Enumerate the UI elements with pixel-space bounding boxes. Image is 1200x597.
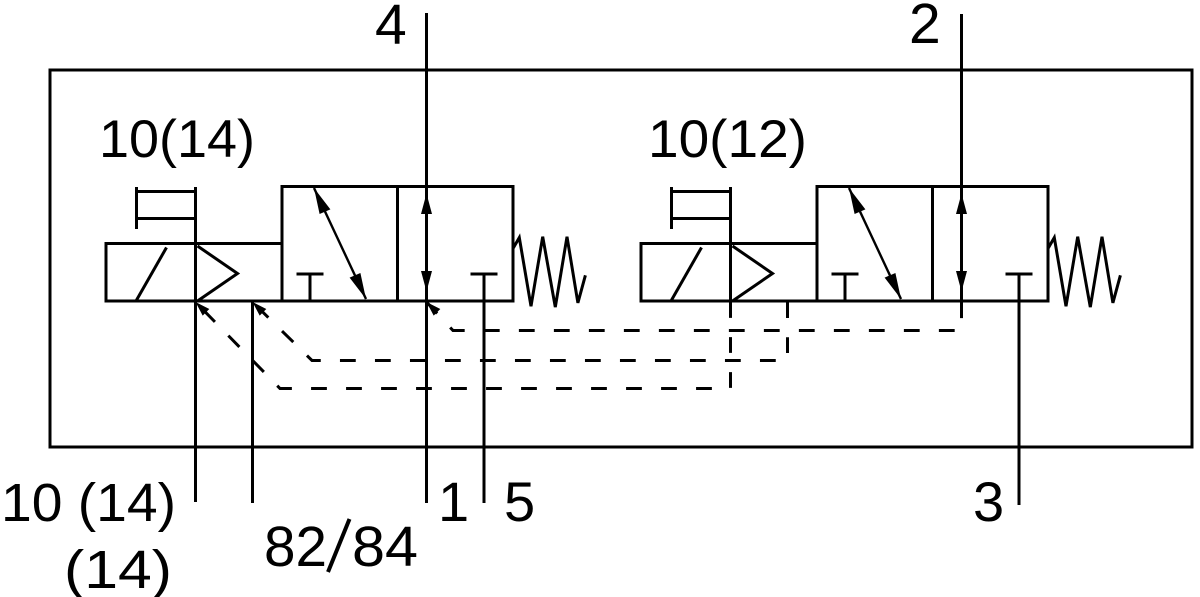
valve V2 body position b (933, 187, 1049, 302)
valve V2 body position a (817, 187, 933, 302)
valve V1 flow path arrow position a (314, 188, 366, 299)
valve V1 blocked port position a (297, 274, 324, 301)
valve V1 return spring (513, 237, 585, 307)
valve V1 body position b (398, 187, 514, 302)
valve V1 solenoid coil diagonal (136, 248, 167, 302)
dashed pilot line 14 (V1 pilot to V2) (196, 302, 731, 389)
port 5 line (483, 274, 486, 503)
valve V2 blocked port position b (port 3 tee) (1006, 273, 1033, 276)
valve V1 blocked port position b (port 5 tee) (471, 273, 498, 276)
valve V1 flow arrows position b (421, 194, 432, 292)
manifold outline (50, 70, 1192, 447)
valve V2 pilot line 10(12) (729, 187, 732, 301)
dashed pilot supply line (port 1 to V2 port 2) (427, 302, 962, 331)
svg-text:84: 84 (352, 515, 418, 579)
valve V1 pilot line 10(14) (194, 187, 197, 502)
port 4 line (425, 13, 428, 503)
svg-text:82: 82 (264, 515, 327, 579)
svg-text:1: 1 (438, 470, 469, 533)
svg-text:2: 2 (909, 0, 941, 56)
svg-text:10 (14): 10 (14) (1, 473, 176, 533)
valve V1 port 82/84 line (251, 301, 254, 503)
valve V2 manual override (672, 187, 731, 229)
valve V1 manual override (137, 187, 196, 229)
valve V1 solenoid box (106, 244, 282, 302)
valve V2 return spring (1048, 237, 1120, 307)
valve V2 flow path arrow position a (849, 188, 901, 299)
valve V1 body position a (282, 187, 398, 302)
dashed pilot line 82/84 (V1 to V2) (253, 302, 788, 361)
svg-text:10(12): 10(12) (648, 110, 807, 169)
label 82/84 slash (328, 519, 350, 572)
valve V2 blocked port position a (832, 274, 859, 301)
svg-text:4: 4 (375, 0, 407, 57)
valve V2 solenoid box (641, 244, 817, 302)
svg-text:10(14): 10(14) (99, 110, 255, 169)
port 3 line (1018, 274, 1021, 505)
svg-text:3: 3 (973, 470, 1004, 533)
valve V2 flow arrows position b (956, 194, 967, 292)
svg-text:5: 5 (504, 470, 535, 533)
svg-text:(14): (14) (64, 540, 172, 597)
valve V1 pilot triangle (198, 246, 238, 301)
valve V2 pilot triangle (733, 246, 773, 301)
valve V2 solenoid coil diagonal (671, 248, 702, 302)
port 2 line (960, 14, 963, 303)
